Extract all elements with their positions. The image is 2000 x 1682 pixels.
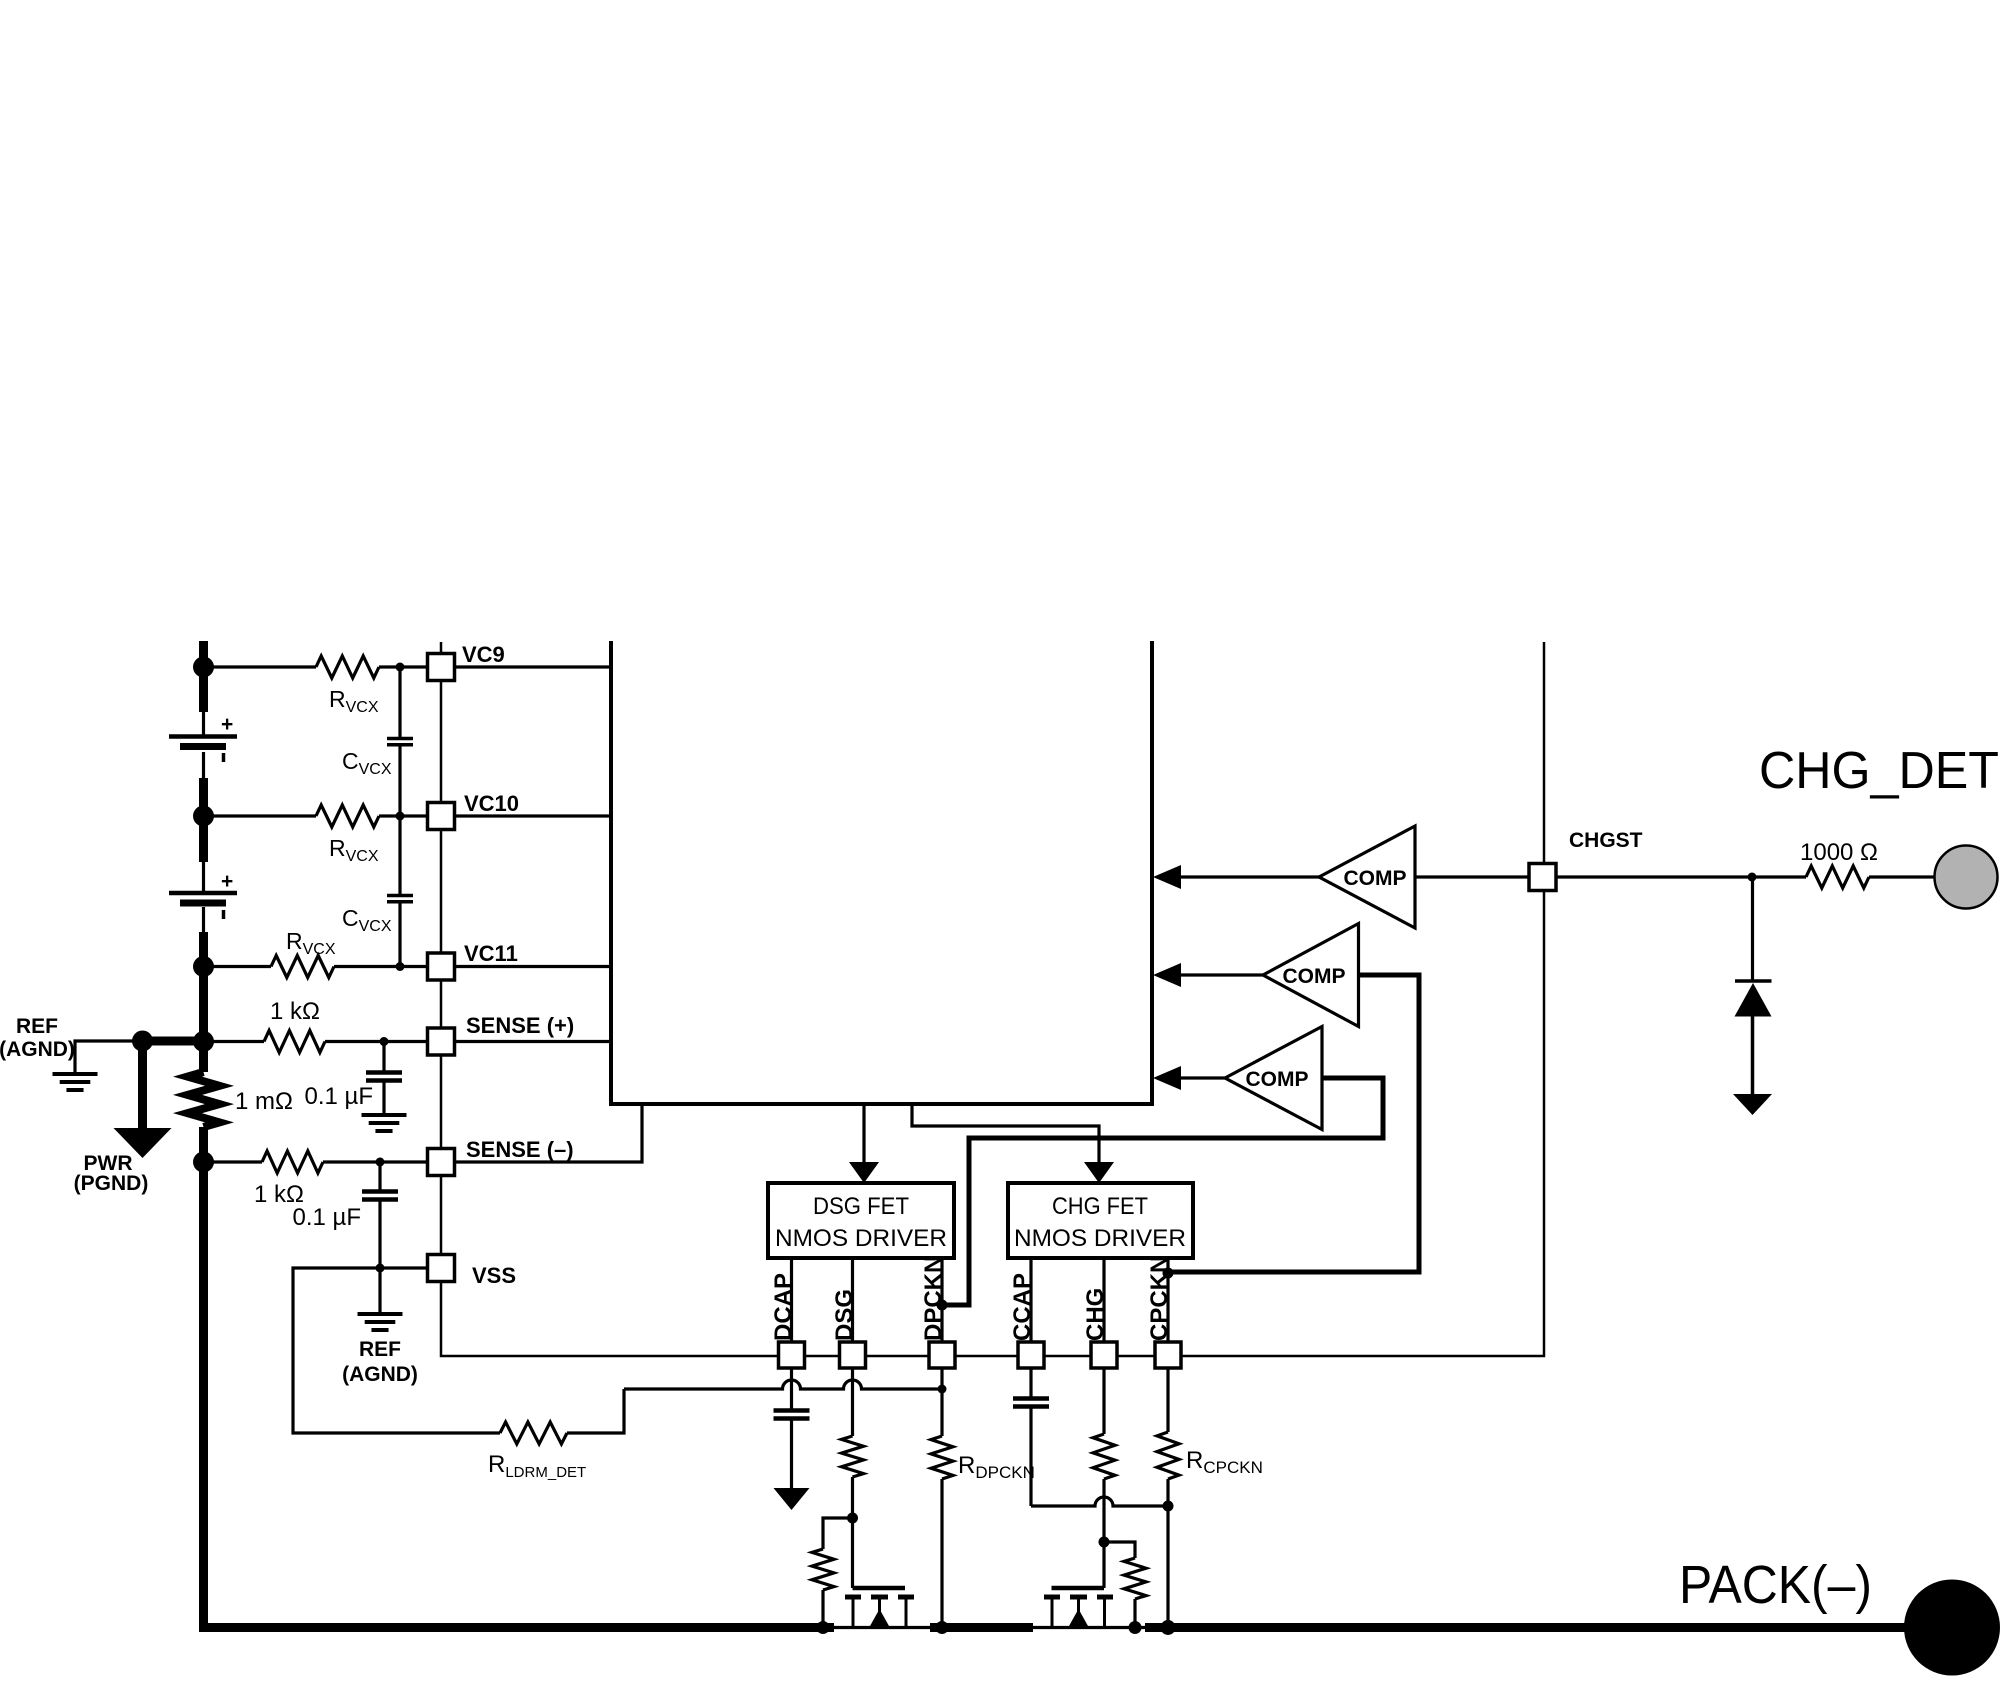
svg-text:VC10: VC10	[464, 791, 519, 816]
label VC9	[462, 642, 505, 667]
capacitor CVCX (VC9-VC10)	[387, 739, 413, 745]
label RVCX (VC11)	[286, 928, 336, 958]
svg-text:0.1 µF: 0.1 µF	[304, 1083, 373, 1110]
label VC11	[464, 941, 518, 966]
svg-text:VC9: VC9	[462, 642, 505, 667]
wire CPCKN pin down	[1166, 1368, 1169, 1432]
pin VC9 square	[428, 654, 455, 681]
label VC10	[464, 791, 519, 816]
wire IC to DSG driver (arrow)	[849, 1104, 879, 1183]
pin CHG square	[1091, 1342, 1117, 1368]
wire PACK(-) rail (thick)	[1145, 1623, 1906, 1632]
label DPCKN (rotated)	[920, 1256, 947, 1341]
wire VC10 pin to IC	[455, 814, 612, 817]
wire CCAP pin to cap	[1029, 1368, 1032, 1397]
wire clamp diode top	[1751, 877, 1754, 981]
pin SENSE(-) square	[428, 1149, 455, 1176]
wire COMP1 output to CHGST	[1415, 875, 1529, 878]
svg-text:1000 Ω: 1000 Ω	[1800, 839, 1878, 866]
wire RVCX to VC9 pin	[379, 665, 428, 668]
svg-text:SENSE (–): SENSE (–)	[466, 1137, 574, 1162]
resistor RVCX (VC10)	[316, 805, 379, 827]
resistor RGS (CHG FET)	[1124, 1558, 1146, 1599]
wire DPCKN pin down	[940, 1368, 943, 1436]
label REF (AGND) at VSS ground	[342, 1338, 418, 1386]
node VC10 filter junction	[396, 812, 405, 821]
terminal PACK(-)	[1904, 1580, 2000, 1676]
svg-text:VSS: VSS	[472, 1263, 516, 1288]
wire battery stack vertical (thick, lower) + bottom rail corner	[204, 1127, 835, 1628]
svg-text:CHG FET: CHG FET	[1052, 1193, 1148, 1220]
diode D1 (clamp, cathode up)	[1735, 981, 1772, 1096]
label CCAP (rotated)	[1009, 1273, 1036, 1341]
battery cell BT2	[169, 870, 237, 919]
label 1000 Ohm	[1800, 839, 1878, 866]
pin VC11 square	[428, 953, 455, 980]
svg-text:CHG_DET: CHG_DET	[1759, 742, 1999, 800]
pin SENSE(+) square	[428, 1028, 455, 1055]
wire SENSE+ from tap	[204, 1040, 265, 1043]
node CPCKN comp-loop junction	[1163, 1268, 1174, 1279]
label PWR (PGND)	[74, 1152, 149, 1195]
wire CVCX2 top	[398, 816, 401, 894]
wire CCAP to PACK- net (hops over CHG)	[1031, 1497, 1168, 1506]
label RVCX (VC10)	[329, 835, 379, 865]
wire CHG pin down	[1102, 1368, 1105, 1434]
wire common-drain rail (thick)	[930, 1623, 1033, 1632]
svg-text:DCAP: DCAP	[770, 1273, 797, 1341]
ground AGND (VSS)	[358, 1314, 403, 1330]
label RVCX (VC9)	[329, 686, 379, 716]
capacitor CDCAP	[774, 1411, 810, 1419]
label CVCX (lower)	[342, 905, 392, 935]
wire VSS node to pin	[380, 1266, 428, 1269]
resistor 1 kOhm (SENSE-)	[262, 1151, 323, 1173]
node RGS1 on rail	[817, 1621, 830, 1634]
label RDPCKN	[958, 1452, 1035, 1482]
pin VSS square	[428, 1255, 455, 1282]
wire SENSE+ cap to ground	[382, 1081, 385, 1115]
wire kelvin link (thick)	[139, 1037, 204, 1046]
wire cell1 top lead (thin)	[202, 712, 205, 737]
node CCAP to CPCKN-net junction	[1163, 1501, 1174, 1512]
wire SENSE+ filter cap top	[382, 1042, 385, 1072]
ground AGND (SENSE+ filter)	[362, 1115, 407, 1131]
svg-text:CHG: CHG	[1082, 1288, 1109, 1341]
wire RDPCKN to rail	[940, 1479, 943, 1628]
capacitor CVCX (VC10-VC11)	[387, 896, 413, 902]
svg-text:+: +	[221, 870, 233, 893]
wire RLDRM_DET to DPCKN net	[567, 1389, 624, 1433]
label DCAP (rotated)	[770, 1273, 797, 1341]
node DSG gate	[847, 1513, 858, 1524]
wire source rail under Q1 (thin)	[834, 1626, 930, 1629]
wire CHGST to resistor	[1556, 875, 1806, 878]
label DSG (rotated)	[831, 1289, 858, 1341]
wire VSS loop left and down	[293, 1268, 500, 1433]
label 1 kOhm (SENSE+)	[270, 998, 320, 1025]
wire RGS to rail	[821, 1590, 824, 1628]
wire DSG driver to pin	[851, 1258, 854, 1342]
wire cell1 to cell2 (thin then thick)	[202, 752, 205, 862]
wire CCAP driver to pin	[1029, 1258, 1032, 1342]
wire VC10 from cell tap	[204, 814, 317, 817]
label SENSE (+)	[466, 1013, 574, 1038]
label SENSE (-)	[466, 1137, 574, 1162]
svg-text:COMP: COMP	[1344, 867, 1407, 890]
node VC11 filter junction	[396, 962, 405, 971]
label 0.1uF (SENSE+)	[304, 1083, 373, 1110]
node VC9 cell tap	[193, 657, 214, 678]
block DSG FET NMOS DRIVER	[768, 1183, 954, 1258]
wire DSG gate pulldown branch	[823, 1518, 853, 1549]
wire RCHG to gate	[1102, 1479, 1105, 1588]
wire load-detect to DPCKN node (hops over DCAP and DSG)	[624, 1380, 942, 1389]
svg-text:NMOS DRIVER: NMOS DRIVER	[775, 1225, 947, 1252]
resistor RLDRM_DET	[500, 1422, 567, 1444]
wire CVCX2 bottom	[398, 902, 401, 967]
wire 1k to SENSE- pin	[323, 1160, 428, 1163]
label CHG_DET	[1759, 742, 1999, 800]
wire COMP1 to IC (arrow)	[1153, 865, 1319, 889]
wire DCAP pin to cap	[790, 1368, 793, 1409]
resistor RDPCKN	[931, 1436, 953, 1479]
wire RVCX to VC10 pin	[379, 814, 428, 817]
label 0.1uF (SENSE-)	[292, 1204, 361, 1231]
wire DCAP driver to pin	[790, 1258, 793, 1342]
wire VC9 pin to IC	[455, 665, 612, 668]
svg-text:1 kΩ: 1 kΩ	[270, 998, 320, 1025]
battery cell BT1	[169, 713, 237, 762]
op-amp COMP2	[1263, 924, 1359, 1027]
wire DCAP cap to arrow	[790, 1419, 793, 1491]
svg-text:DPCKN: DPCKN	[920, 1256, 947, 1341]
wire RVCX to VC11 pin	[334, 965, 428, 968]
pin CPCKN square	[1155, 1342, 1181, 1368]
label CPCKN (rotated)	[1146, 1256, 1173, 1341]
svg-text:COMP: COMP	[1246, 1068, 1309, 1091]
node DPCKN comp-loop junction	[937, 1300, 948, 1311]
svg-text:DSG: DSG	[831, 1289, 858, 1341]
svg-text:SENSE (+): SENSE (+)	[466, 1013, 574, 1038]
wire CHG gate pulldown branch	[1104, 1542, 1135, 1558]
wire SENSE- pin right and up to IC bottom	[455, 1104, 643, 1162]
label RLDRM_DET	[488, 1451, 586, 1481]
label REF (AGND) upper-left	[0, 1015, 75, 1061]
ground PGND arrow (diode)	[1733, 1094, 1772, 1115]
wire RCPCKN to rail	[1166, 1479, 1169, 1628]
resistor RGS (DSG FET)	[812, 1549, 834, 1590]
op-amp COMP1 (charge detect comparator)	[1319, 826, 1415, 928]
ground PGND arrow (DCAP)	[774, 1488, 810, 1510]
node RGS2 on rail	[1129, 1621, 1142, 1634]
wire VSS node to ground	[378, 1268, 381, 1313]
label CHGST	[1569, 829, 1643, 852]
label 1 mOhm	[235, 1088, 293, 1115]
capacitor 0.1uF (SENSE-)	[362, 1192, 398, 1200]
wire battery stack vertical (thick, top segment)	[199, 641, 208, 712]
svg-text:0.1 µF: 0.1 µF	[292, 1204, 361, 1231]
wire battery stack vertical (thick, middle)	[199, 932, 208, 1072]
svg-text:PACK(–): PACK(–)	[1679, 1555, 1872, 1615]
wire source rail under Q2 (thin)	[1033, 1626, 1148, 1629]
node SENSE- filter junction	[376, 1158, 385, 1167]
wire PWR PGND drop (thick)	[138, 1041, 147, 1129]
wire IC to CHG driver (arrow)	[912, 1104, 1114, 1183]
op-amp COMP3	[1225, 1027, 1322, 1130]
label CHG (rotated)	[1082, 1288, 1109, 1341]
node common-drain on rail	[936, 1621, 949, 1634]
node VC9 filter junction	[396, 663, 405, 672]
node DPCKN load-detect junction	[938, 1385, 947, 1394]
wire CVCX1 bottom	[398, 745, 401, 816]
svg-text:COMP: COMP	[1283, 965, 1346, 988]
svg-text:+: +	[221, 713, 233, 736]
resistor RCPCKN	[1157, 1432, 1179, 1479]
wire DSG pin down	[851, 1368, 854, 1436]
wire cell2 bottom lead	[202, 907, 205, 932]
svg-text:CHGST: CHGST	[1569, 829, 1643, 852]
resistor RVCX (VC9)	[316, 656, 379, 678]
transistor Q1 DSG NMOS	[845, 1588, 914, 1628]
pin VC10 square	[428, 803, 455, 830]
svg-text:DSG FET: DSG FET	[813, 1193, 909, 1220]
wire DPCKN driver to pin	[940, 1258, 943, 1342]
wire VC9 from cell tap	[204, 665, 317, 668]
node CPCKN net on rail	[1161, 1620, 1176, 1635]
pin DPCKN square	[929, 1342, 955, 1368]
ground PWR (PGND) arrow	[114, 1128, 172, 1158]
node VSS junction	[376, 1264, 385, 1273]
wire CCAP cap down	[1029, 1407, 1032, 1507]
wire cell2 top lead (thin)	[202, 862, 205, 892]
svg-text:NMOS DRIVER: NMOS DRIVER	[1014, 1225, 1186, 1252]
wire VC11 pin to IC	[455, 965, 612, 968]
wire REF to AGND ground	[75, 1041, 141, 1073]
label VSS	[472, 1263, 516, 1288]
capacitor CCCAP	[1013, 1399, 1049, 1407]
block CHG FET NMOS DRIVER	[1008, 1183, 1193, 1258]
wire 1000 Ohm to terminal	[1869, 875, 1936, 878]
resistor 1 kOhm (SENSE+)	[264, 1031, 325, 1053]
wire COMP3 output loop to DPCKN	[942, 1078, 1383, 1305]
node SENSE+ filter junction	[380, 1037, 389, 1046]
node SENSE(-) tap	[193, 1152, 214, 1173]
label CVCX (upper)	[342, 748, 392, 778]
wire CHG driver to pin	[1102, 1258, 1105, 1342]
capacitor 0.1uF (SENSE+)	[366, 1073, 402, 1081]
pin CHGST square	[1529, 864, 1556, 891]
svg-text:(AGND): (AGND)	[342, 1363, 418, 1386]
node VC10 cell tap	[193, 806, 214, 827]
svg-text:CCAP: CCAP	[1009, 1273, 1036, 1341]
svg-text:REF: REF	[16, 1015, 58, 1038]
resistor 1000 Ohm	[1806, 866, 1869, 888]
resistor RCHG gate series	[1093, 1434, 1115, 1479]
wire 1k to SENSE+ pin	[325, 1040, 428, 1043]
pin DCAP square	[779, 1342, 805, 1368]
pin CCAP square	[1018, 1342, 1044, 1368]
wire SENSE+ pin to IC	[455, 1040, 612, 1043]
wire SENSE- from tap	[204, 1160, 263, 1163]
wire RDSG to gate node	[851, 1477, 854, 1588]
svg-text:VC11: VC11	[464, 941, 518, 966]
svg-text:(AGND): (AGND)	[0, 1038, 75, 1061]
transistor Q2 CHG NMOS	[1044, 1588, 1113, 1628]
label RCPCKN	[1186, 1447, 1263, 1477]
node VC11 cell tap	[193, 956, 214, 977]
resistor RVCX (VC11)	[271, 956, 334, 978]
label PACK(-)	[1679, 1555, 1872, 1615]
svg-text:REF: REF	[359, 1338, 401, 1361]
node CHG_DET clamp junction	[1748, 873, 1757, 882]
wire SENSE- filter cap top	[378, 1162, 381, 1190]
wire SENSE- cap to VSS node	[378, 1200, 381, 1269]
IC package outline (thin pin-boundary lines)	[441, 642, 1544, 1356]
wire CHG RGS to rail	[1133, 1599, 1136, 1628]
wire CPCKN driver to pin	[1166, 1258, 1169, 1342]
node REF kelvin junction	[132, 1031, 153, 1052]
terminal CHG_DET (gray circle)	[1935, 846, 1998, 909]
wire COMP2 to IC (arrow)	[1153, 963, 1263, 987]
svg-text:CPCKN: CPCKN	[1146, 1256, 1173, 1341]
svg-text:(PGND): (PGND)	[74, 1172, 149, 1195]
wire COMP2 output loop to CPCKN	[1168, 975, 1419, 1272]
IC internal block U1 (thick open rectangle, cropped at top)	[611, 641, 1152, 1104]
node SENSE(+) tap	[193, 1031, 214, 1052]
wire CVCX1 top	[398, 667, 401, 737]
label 1 kOhm (SENSE-)	[254, 1181, 304, 1208]
pin DSG square	[840, 1342, 866, 1368]
svg-text:1 mΩ: 1 mΩ	[235, 1088, 293, 1115]
resistor RDSG gate series	[842, 1436, 864, 1477]
node CHG gate	[1099, 1537, 1110, 1548]
ground AGND upper-left	[53, 1074, 98, 1090]
resistor RSNS 1 mOhm (thick vertical zigzag)	[188, 1072, 220, 1127]
wire VC11 from cell tap	[204, 965, 272, 968]
wire COMP3 to IC (arrow)	[1153, 1066, 1225, 1090]
